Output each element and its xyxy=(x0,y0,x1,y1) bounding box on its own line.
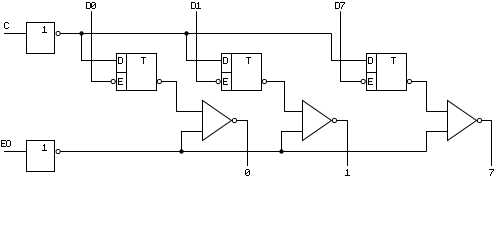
latch U2 output bubble xyxy=(157,79,161,83)
latch U2 pin E label xyxy=(118,78,123,85)
junction dot clock tap 2 xyxy=(184,31,188,35)
latch U4 E input bubble xyxy=(361,79,365,83)
buffer U5 box xyxy=(27,141,55,172)
inverter V3 triangle xyxy=(448,101,477,141)
latch U3 box xyxy=(222,54,262,91)
wire D1 to latch U3 E input xyxy=(197,11,217,81)
inverter V1 triangle xyxy=(203,101,232,141)
wire latch U2 output to inverter V1 input xyxy=(162,82,203,112)
buffer U5 value 1 xyxy=(42,144,47,151)
wire clock tap to latch U3 D input xyxy=(187,34,222,61)
wire enable end bend to inverter V3 enable input xyxy=(427,132,448,152)
latch U4 divider horizontal xyxy=(367,72,377,74)
wire clock horizontal xyxy=(60,33,331,35)
inverter V1 output bubble xyxy=(232,118,236,122)
inverter V2 output bubble xyxy=(332,118,336,122)
latch U3 output bubble xyxy=(262,79,266,83)
latch U2 box xyxy=(117,54,157,91)
node D0 label xyxy=(86,2,91,9)
wire enable tap to inverter V1 enable input xyxy=(182,132,203,152)
latch U2 divider horizontal xyxy=(117,72,127,74)
latch U2 divider vertical xyxy=(126,54,128,91)
junction dot enable tap 2 xyxy=(279,149,283,153)
latch U3 pin D label xyxy=(223,57,228,64)
latch U3 divider horizontal xyxy=(222,72,232,74)
wire inverter V1 output to node 0 xyxy=(237,121,248,167)
latch U4 pin D label xyxy=(368,57,373,64)
latch U3 divider vertical xyxy=(231,54,233,91)
node C label xyxy=(4,22,9,29)
wire clock bend down to latch U4 D input xyxy=(332,34,367,61)
latch U3 E input bubble xyxy=(216,79,220,83)
wire latch U3 output to inverter V2 input xyxy=(267,82,303,112)
latch U3 T label xyxy=(246,57,251,64)
junction dot enable tap 1 xyxy=(179,149,183,153)
node 1 output label xyxy=(345,169,350,176)
latch U4 box xyxy=(367,54,407,91)
latch U2 E input bubble xyxy=(111,79,115,83)
wire inverter V3 output to node 7 xyxy=(482,121,492,167)
buffer U1 output bubble xyxy=(56,31,60,35)
junction dot clock tap 1 xyxy=(79,31,83,35)
inverter V3 output bubble xyxy=(477,118,481,122)
latch U4 output bubble xyxy=(407,79,411,83)
latch U2 pin D label xyxy=(118,57,123,64)
node D1 label xyxy=(191,2,196,9)
node D7 label xyxy=(335,2,340,9)
wire enable horizontal xyxy=(60,151,426,153)
wire enable tap to inverter V2 enable input xyxy=(282,132,303,152)
wire C input xyxy=(4,33,27,35)
wire D7 to latch U4 E input xyxy=(341,11,362,81)
latch U2 T label xyxy=(141,57,146,64)
node EO label xyxy=(1,140,6,147)
wire EO input xyxy=(4,151,27,153)
inverter V2 triangle xyxy=(303,101,332,141)
buffer U1 value 1 xyxy=(42,26,47,33)
wire inverter V2 output to node 1 xyxy=(337,121,348,167)
latch U4 T label xyxy=(391,57,396,64)
node 0 output label xyxy=(245,169,250,176)
buffer U5 output bubble xyxy=(56,149,60,153)
buffer U1 box xyxy=(27,23,55,54)
node 7 output label xyxy=(489,169,494,176)
latch U3 pin E label xyxy=(223,78,228,85)
wire clock tap to latch U2 D input xyxy=(82,34,117,61)
latch U4 pin E label xyxy=(368,78,373,85)
latch U4 divider vertical xyxy=(376,54,378,91)
wire latch U4 output to inverter V3 input xyxy=(412,82,448,112)
wire D0 to latch U2 E input xyxy=(92,11,112,81)
